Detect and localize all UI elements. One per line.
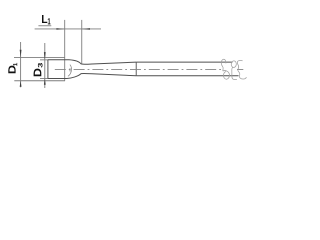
break line 2: top oval <box>231 61 236 70</box>
D1 extension line top <box>14 57 65 59</box>
centerline final dash <box>237 68 243 70</box>
L1 dimension line <box>35 28 101 30</box>
flute edge arc <box>68 65 72 77</box>
L1 label underline <box>38 25 51 27</box>
L1 extension line 2 <box>81 20 83 64</box>
D3 arrowhead bottom <box>44 79 46 85</box>
dimension label D1 <box>8 63 17 73</box>
break line 1: top arch <box>221 59 226 71</box>
head outline: left face <box>47 60 49 79</box>
D3 extension line top <box>40 59 48 61</box>
neck taper top <box>81 62 136 64</box>
D3 extension line bottom <box>40 78 48 80</box>
taper-shank junction line <box>135 62 137 76</box>
head outline: bottom edge and ball arc to neck <box>48 74 81 79</box>
L1 arrowhead right <box>82 28 90 30</box>
neck taper bottom <box>81 73 136 75</box>
L1 arrowhead left <box>56 28 64 30</box>
ball center tick <box>69 68 71 71</box>
shank bottom line <box>136 75 238 77</box>
head outline: top edge and ball arc to neck <box>48 60 81 64</box>
D1 arrowhead top <box>20 50 22 58</box>
D1 dimension line <box>20 42 22 87</box>
centerline <box>55 68 221 70</box>
D3 arrowhead top <box>44 52 46 60</box>
D1 extension line bottom <box>14 80 65 82</box>
break line 2: lower stroke with bottom hook <box>232 70 237 80</box>
break line 3: S-curve with right hooks <box>237 61 246 79</box>
dimension label L1 <box>42 15 51 24</box>
dimension label D3 <box>34 63 43 76</box>
shank top line <box>136 61 232 63</box>
D3 dimension line <box>44 43 46 88</box>
L1 extension line / flute end boundary <box>64 20 66 81</box>
D1 arrowhead bottom <box>20 81 22 87</box>
break line 1: bottom loop <box>223 71 230 80</box>
